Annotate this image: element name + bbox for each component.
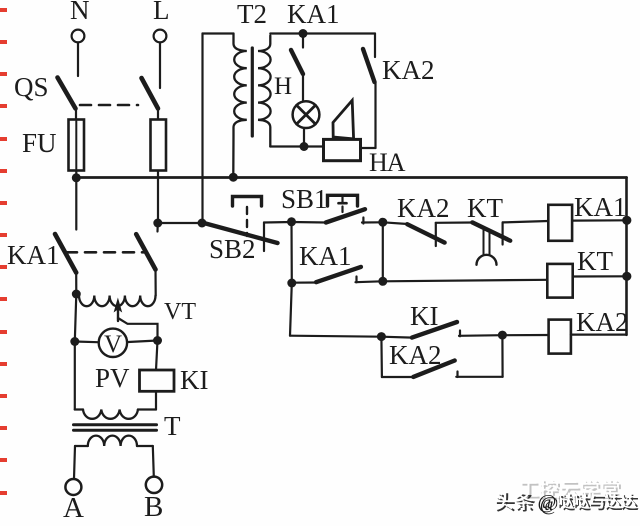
wire phase rail (after right fuse): [158, 222, 204, 224]
wire B2 to KT coil: [383, 280, 548, 282]
wire lamp bottom rail: [270, 145, 323, 147]
svg-text:KT: KT: [577, 246, 613, 276]
svg-text:KI: KI: [180, 365, 209, 395]
svg-text:KA1: KA1: [7, 240, 60, 270]
button SB2 (NC): [202, 197, 292, 265]
transformer T2: [203, 0, 271, 223]
node right column KA1 junction: [622, 216, 631, 225]
svg-text:N: N: [70, 0, 90, 25]
svg-text:HA: HA: [369, 148, 406, 177]
node A junction (SB2 right): [287, 217, 296, 226]
contact KA1 (self-hold NO): [292, 241, 383, 283]
wire KI row left: [290, 336, 381, 337]
node B2 junction: [378, 277, 387, 286]
contact KT (NC delayed): [467, 193, 548, 265]
node bus T2 junction: [229, 173, 238, 182]
node L terminal: [153, 0, 170, 42]
svg-text:KI: KI: [410, 301, 439, 331]
svg-text:A: A: [63, 492, 84, 524]
node A terminal: [63, 479, 84, 524]
meter PV voltmeter: [75, 329, 158, 393]
contact KA1 (DP, VT switch): [7, 178, 158, 296]
svg-text:T: T: [164, 411, 181, 441]
node KI row left junction: [377, 332, 386, 341]
wire left column to PV row: [75, 294, 77, 342]
coil KT: [547, 246, 626, 298]
svg-text:V: V: [104, 331, 122, 358]
wire N to QS: [77, 43, 79, 77]
node VT left junction: [72, 290, 81, 299]
node B junction (SB1 right): [378, 218, 387, 227]
red margin dashes (hidden list markers): [0, 8, 7, 495]
svg-text:KA2: KA2: [382, 55, 435, 85]
button SB1 (NO): [281, 184, 383, 224]
transformer T: [74, 410, 182, 447]
contact KA2 (horn branch): [363, 34, 435, 149]
node KI row right junction: [498, 331, 507, 340]
node PV right junction: [153, 336, 162, 345]
node rail-T2 junction: [198, 219, 207, 228]
svg-text:FU: FU: [22, 128, 57, 158]
svg-text:PV: PV: [95, 363, 130, 393]
svg-text:@: @: [538, 491, 557, 513]
node KA1 top junction: [299, 29, 308, 38]
node N terminal: [70, 0, 90, 42]
wire T secondary to terminals: [74, 446, 75, 479]
node B terminal: [144, 477, 163, 523]
wire T2 secondary top rail: [270, 32, 375, 34]
horn HA: [324, 100, 406, 177]
fuse FU (both poles): [22, 120, 166, 224]
watermark engraved gray: [520, 479, 621, 500]
wire to KA2 coil: [503, 334, 549, 336]
coil KA2: [549, 307, 629, 354]
svg-text:T2: T2: [237, 0, 267, 29]
svg-text:KA1: KA1: [287, 0, 340, 29]
node A2 junction: [287, 279, 296, 288]
wire L to QS: [159, 43, 161, 89]
wire A2 down-column: [290, 283, 292, 336]
coil KA1: [548, 192, 626, 241]
wire left column to T: [74, 342, 76, 410]
coil KI: [140, 341, 209, 410]
node right column KT junction: [622, 272, 631, 281]
contact KA1 (lamp branch): [291, 34, 303, 101]
svg-text:KA2: KA2: [389, 340, 442, 370]
svg-text:KA1: KA1: [574, 192, 627, 222]
contact KA2 (NC, KA1 coil row): [383, 193, 473, 246]
svg-text:L: L: [153, 0, 170, 25]
svg-text:KA2: KA2: [397, 193, 450, 223]
node PV left junction: [70, 337, 79, 346]
lamp H: [274, 73, 319, 147]
switch QS: [14, 72, 158, 120]
svg-text:SB2: SB2: [209, 234, 256, 264]
wire node A down-column: [290, 222, 292, 283]
svg-text:QS: QS: [14, 72, 49, 102]
svg-text:B: B: [144, 491, 163, 523]
node lamp bottom junction: [300, 142, 309, 151]
svg-text:SB1: SB1: [281, 184, 328, 214]
transformer VT (variable): [79, 296, 196, 341]
watermark toutiao black: [495, 491, 639, 515]
contact KI (NO): [381, 301, 502, 338]
wire right column: [625, 178, 628, 335]
wire main bus (N rail): [76, 176, 626, 179]
node rail-fuse junction: [153, 219, 162, 228]
contact KA2 (NO, bottom row): [381, 335, 502, 377]
svg-text:KA1: KA1: [299, 241, 352, 271]
svg-text:KT: KT: [467, 193, 503, 223]
svg-text:H: H: [274, 73, 292, 100]
wire B to B2: [382, 222, 384, 281]
svg-text:VT: VT: [164, 299, 196, 325]
node bus left junction: [72, 173, 81, 182]
svg-text:KA2: KA2: [576, 307, 629, 337]
